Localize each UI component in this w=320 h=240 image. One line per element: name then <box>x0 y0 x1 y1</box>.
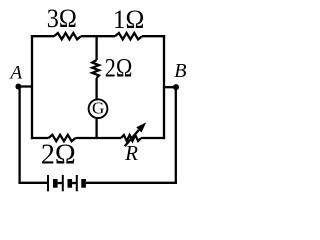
wire outer bottom-left to battery <box>18 182 47 184</box>
resistor R2 1ohm <box>115 33 142 39</box>
battery BT1 cell2 short plate <box>68 179 73 188</box>
wire top-left segment <box>31 35 54 37</box>
wire middle branch upper <box>95 36 97 60</box>
battery BT1 cell1 long plate <box>47 175 49 191</box>
svg-text:G: G <box>92 98 104 117</box>
arrow of variable resistor R <box>125 122 147 146</box>
resistor R3 2ohm bottom <box>49 135 76 141</box>
resistor R4 2ohm middle <box>92 60 99 78</box>
svg-text:2Ω: 2Ω <box>41 139 76 170</box>
node A junction dot <box>15 84 21 90</box>
battery BT1 cell3 short plate <box>81 179 86 188</box>
galvanometer U1 circle <box>89 99 108 118</box>
wire outer right <box>175 87 177 184</box>
node B junction dot <box>173 84 179 90</box>
wire node B stub <box>164 86 176 88</box>
svg-text:A: A <box>8 62 22 83</box>
wire outer left <box>18 87 20 184</box>
wire bottom-left segment <box>31 137 49 139</box>
svg-text:2Ω: 2Ω <box>105 54 133 83</box>
wire node A stub <box>18 85 32 87</box>
wire bottom-right segment <box>141 137 165 139</box>
resistor R variable <box>121 135 141 141</box>
svg-text:3Ω: 3Ω <box>47 4 77 33</box>
svg-text:B: B <box>174 60 186 82</box>
wire battery to bottom-right corner <box>86 182 177 184</box>
svg-text:1Ω: 1Ω <box>113 5 145 34</box>
wire bottom-middle segment <box>76 137 122 139</box>
wire middle branch to galvanometer <box>95 78 97 101</box>
battery BT1 cell3 long plate <box>76 175 78 191</box>
wire battery link 2 <box>72 182 76 184</box>
battery BT1 cell2 long plate <box>62 175 64 191</box>
wire battery link 1 <box>58 182 62 184</box>
svg-text:R: R <box>124 141 138 165</box>
battery BT1 cell1 short plate <box>53 179 58 188</box>
wire top-middle segment <box>81 35 115 37</box>
wire left side of bridge <box>31 35 33 139</box>
wire galvanometer to bottom <box>95 117 97 138</box>
resistor R1 3ohm <box>54 33 81 39</box>
wire top-right segment <box>142 35 165 37</box>
wire right side of bridge <box>163 35 165 139</box>
